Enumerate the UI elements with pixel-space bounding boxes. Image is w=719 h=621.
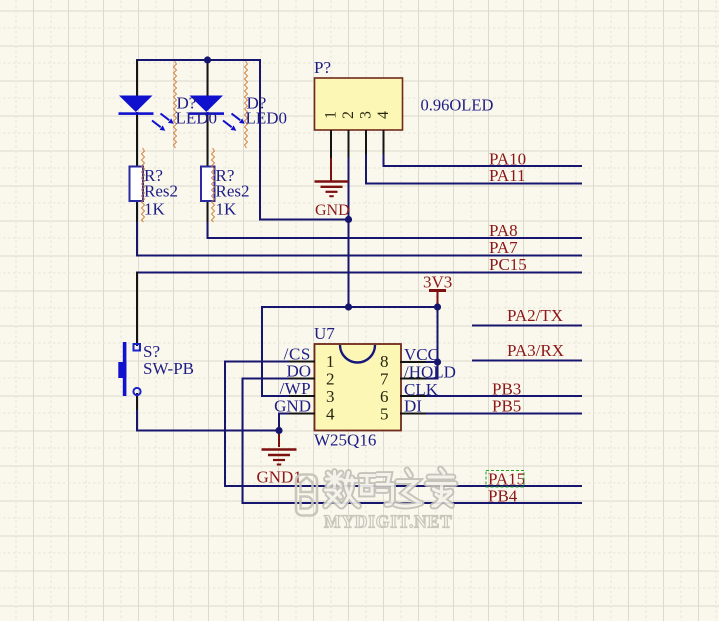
svg-text:1K: 1K [144, 200, 166, 219]
svg-text:0.96OLED: 0.96OLED [421, 96, 494, 115]
svg-text:4: 4 [375, 111, 392, 119]
svg-text:/WP: /WP [280, 379, 311, 398]
svg-text:LED0: LED0 [176, 109, 218, 128]
svg-text:1K: 1K [216, 200, 238, 219]
svg-text:GND: GND [274, 397, 311, 416]
svg-text:7: 7 [380, 370, 389, 389]
svg-text:GND: GND [315, 202, 350, 219]
svg-text:3: 3 [358, 111, 375, 119]
svg-text:PA11: PA11 [489, 166, 526, 185]
svg-text:PA2/TX: PA2/TX [507, 306, 563, 325]
svg-text:3V3: 3V3 [423, 273, 452, 292]
svg-text:8: 8 [380, 352, 389, 371]
svg-text:5: 5 [380, 405, 389, 424]
svg-text:/HOLD: /HOLD [404, 363, 456, 382]
svg-text:PA3/RX: PA3/RX [507, 341, 564, 360]
svg-text:MYDIGIT.NET: MYDIGIT.NET [324, 512, 453, 532]
svg-text:W25Q16: W25Q16 [314, 431, 376, 450]
svg-text:PC15: PC15 [489, 255, 527, 274]
svg-text:1: 1 [323, 111, 340, 119]
svg-text:1: 1 [326, 352, 335, 371]
svg-text:DO: DO [286, 362, 311, 381]
svg-text:LED0: LED0 [246, 109, 288, 128]
svg-text:6: 6 [380, 387, 389, 406]
svg-text:SW-PB: SW-PB [143, 359, 194, 378]
svg-text:Res2: Res2 [144, 182, 178, 201]
svg-text:2: 2 [340, 111, 357, 119]
svg-text:PB4: PB4 [488, 487, 518, 506]
svg-text:PB5: PB5 [492, 397, 521, 416]
svg-text:P?: P? [314, 58, 331, 77]
svg-text:DI: DI [404, 397, 422, 416]
svg-text:3: 3 [326, 387, 335, 406]
svg-text:Res2: Res2 [216, 182, 250, 201]
svg-text:4: 4 [326, 405, 335, 424]
svg-text:VCC: VCC [404, 345, 439, 364]
svg-text:2: 2 [326, 370, 335, 389]
svg-text:U7: U7 [314, 324, 335, 343]
